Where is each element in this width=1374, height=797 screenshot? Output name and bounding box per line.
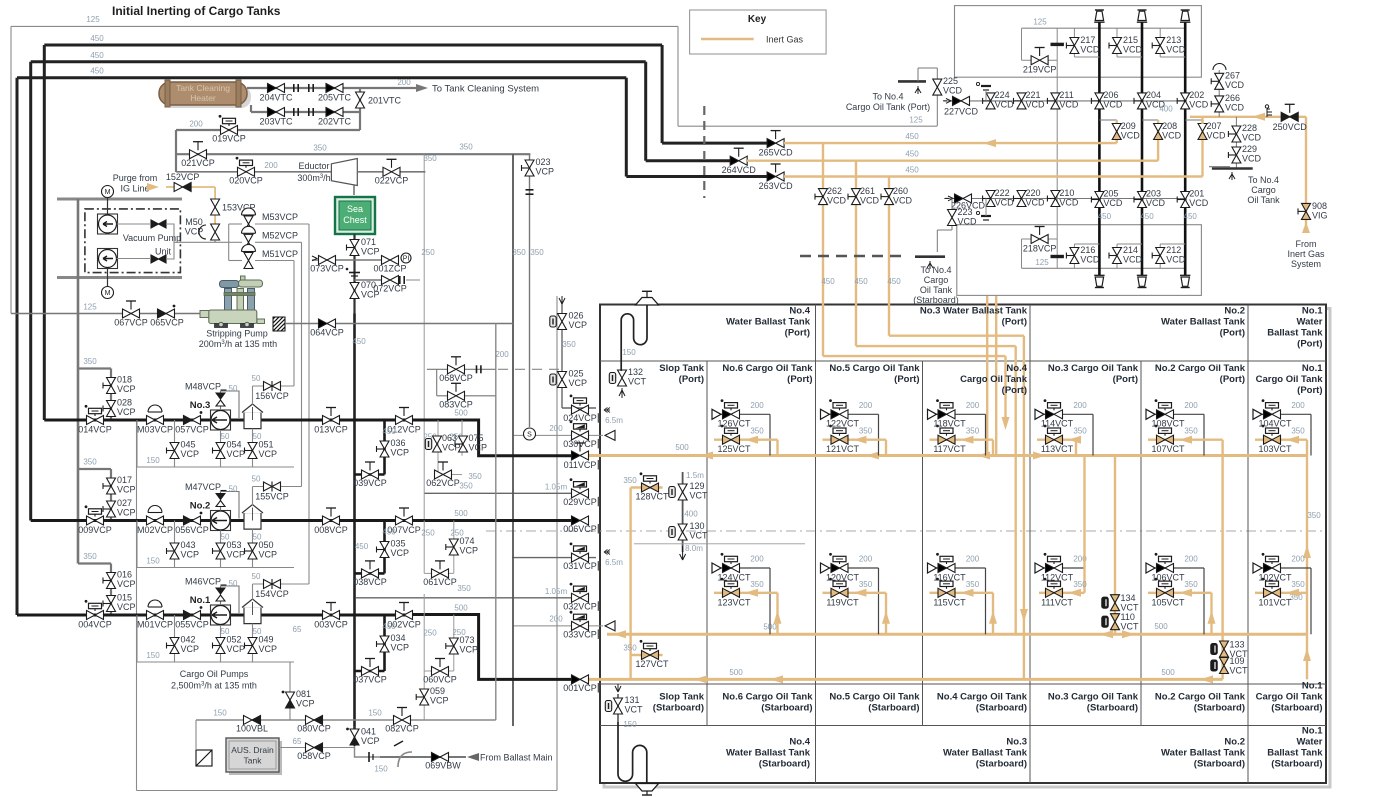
svg-text:To No.4: To No.4	[872, 92, 903, 102]
valve 203VTC	[268, 108, 277, 117]
svg-text:VCP: VCP	[185, 227, 204, 237]
svg-text:Purge from: Purge from	[113, 173, 158, 183]
svg-text:350: 350	[1073, 580, 1087, 589]
svg-text:264VCD: 264VCD	[722, 165, 757, 175]
vacuum pump 2	[98, 249, 118, 269]
svg-text:200: 200	[1291, 401, 1305, 410]
valve 014VCP	[87, 416, 96, 425]
valve 260VCD	[881, 196, 889, 198]
svg-text:(Starboard): (Starboard)	[1271, 703, 1322, 714]
valve 216VCD	[1066, 255, 1074, 257]
svg-text:350: 350	[1307, 511, 1321, 520]
svg-text:021VCP: 021VCP	[181, 158, 215, 168]
svg-text:016: 016	[117, 570, 132, 580]
svg-text:6.5m: 6.5m	[605, 558, 623, 567]
svg-text:M03VCP: M03VCP	[137, 424, 173, 434]
pipe 450 trunk B left drop	[29, 62, 32, 521]
svg-text:VCT: VCT	[1121, 622, 1140, 632]
svg-text:207: 207	[1207, 121, 1222, 131]
svg-text:VCP: VCP	[361, 736, 380, 746]
pipe stripping discharge	[285, 323, 513, 325]
arrow port header flow left 3	[977, 452, 990, 460]
valve 226VCD	[955, 194, 964, 203]
svg-text:350: 350	[750, 427, 764, 436]
node suction inlet triangle 120VCT	[821, 563, 830, 573]
svg-text:VCD: VCD	[1080, 45, 1100, 55]
svg-text:VCD: VCD	[860, 196, 880, 206]
svg-text:125VCT: 125VCT	[717, 444, 751, 454]
pipe lower stbd inert gas line 500 (tan)	[583, 678, 1223, 681]
valve 209VCD	[1112, 124, 1121, 132]
svg-text:M53VCP: M53VCP	[262, 212, 298, 222]
svg-text:VCD: VCD	[1166, 45, 1186, 55]
svg-text:450: 450	[355, 542, 369, 551]
svg-text:VCD: VCD	[1026, 100, 1046, 110]
valve 107VCT	[1157, 435, 1166, 444]
svg-text:214: 214	[1123, 245, 1138, 255]
pipe tan drop 261VCD	[855, 161, 857, 256]
svg-text:VCP: VCP	[117, 485, 136, 495]
pump No.2	[211, 511, 231, 531]
svg-text:Oil Tank: Oil Tank	[920, 285, 953, 295]
svg-text:No.4: No.4	[789, 306, 810, 317]
bulkhead dashed line	[703, 106, 705, 198]
label No.2 Water Ballast Tank (Port)	[1161, 306, 1246, 339]
wire bridge top 215VCD	[1116, 28, 1118, 38]
valve 016VCP	[103, 580, 111, 582]
bar vacuum bottom	[57, 276, 182, 279]
valve 036VCP	[377, 448, 385, 450]
valve 155VCP	[264, 482, 273, 491]
svg-text:213: 213	[1166, 35, 1181, 45]
wire 106VCT drop	[1203, 568, 1205, 634]
pipe 450 trunk B top	[31, 60, 646, 63]
node suction inlet triangle 124VCT	[712, 563, 721, 573]
svg-text:023: 023	[536, 157, 551, 167]
pipe 125 thin loop top	[11, 25, 678, 27]
node suction inlet triangle 112VCT	[1035, 563, 1044, 573]
svg-text:VCD: VCD	[1123, 255, 1143, 265]
svg-text:VCP: VCP	[117, 579, 136, 589]
svg-text:No.5 Cargo Oil Tank: No.5 Cargo Oil Tank	[829, 692, 920, 703]
svg-text:450: 450	[382, 427, 396, 436]
valve 111VCT	[1046, 588, 1055, 597]
svg-text:No.1: No.1	[1302, 306, 1323, 317]
svg-text:060VCP: 060VCP	[423, 675, 457, 685]
valve 100VBL	[244, 716, 253, 725]
svg-text:(Port): (Port)	[1220, 328, 1245, 339]
svg-text:No.1: No.1	[1302, 726, 1323, 737]
valve 061VCP	[432, 569, 441, 578]
svg-text:Cargo Oil Tank: Cargo Oil Tank	[1256, 692, 1324, 703]
svg-text:200: 200	[549, 424, 563, 433]
wire 116VCT drop	[985, 568, 987, 634]
wire 029VCP line	[424, 492, 571, 494]
pipe 450 trunk A drop right	[661, 45, 664, 143]
svg-text:120VCT: 120VCT	[826, 572, 860, 582]
arrow flow 113VCT	[1068, 436, 1081, 444]
pipe machinery boundary bottom	[137, 790, 558, 792]
svg-text:261: 261	[860, 186, 875, 196]
svg-text:027: 027	[117, 498, 132, 508]
label No.2 Water Ballast Tank (Starboard)	[1161, 737, 1246, 770]
valve 118VCT	[938, 410, 947, 419]
svg-text:500: 500	[454, 409, 468, 418]
pipe cargo riser 1 (thick)	[1098, 23, 1101, 276]
valve 028VCP	[103, 408, 111, 410]
pipe 125 stripping line	[11, 313, 204, 315]
svg-text:082VCP: 082VCP	[385, 724, 419, 734]
valve M46VCP relief	[220, 586, 222, 605]
valve 082VCP	[394, 716, 403, 725]
valve 072VCP	[382, 276, 391, 285]
pipe 020VCP line	[176, 171, 331, 173]
valve 004VCP	[87, 611, 96, 620]
svg-text:VCP: VCP	[227, 644, 246, 654]
svg-text:500: 500	[454, 509, 468, 518]
valve 027VCP	[103, 508, 111, 510]
svg-text:No.4: No.4	[789, 737, 810, 748]
wire 105VCT branch stbd (inert gas)	[1148, 592, 1212, 594]
wire 033VCP stub	[513, 625, 603, 627]
wire 102VCT suction line stbd	[1260, 567, 1311, 569]
valve 073VCP	[319, 256, 328, 265]
valve 103VCT	[1264, 435, 1273, 444]
pipe recirculation loop train 1	[137, 661, 294, 663]
valve 043 drop	[174, 521, 176, 568]
valve 205VTC	[326, 84, 335, 93]
node vent chevron 026	[559, 296, 565, 304]
svg-text:132: 132	[628, 367, 643, 377]
pipe tan crossover to x=1023.9	[889, 335, 1024, 337]
svg-text:150: 150	[368, 709, 382, 718]
svg-text:156VCP: 156VCP	[255, 391, 289, 401]
arrow flow 101VCT	[1286, 589, 1299, 597]
svg-text:075: 075	[469, 433, 484, 443]
valve 056VCP	[184, 516, 193, 525]
valve 201VCD	[1177, 199, 1185, 201]
svg-text:VCP: VCP	[117, 602, 136, 612]
svg-text:VCP: VCP	[117, 508, 136, 518]
pipe port inert gas header 500 (tan)	[583, 454, 1307, 457]
svg-text:VCP: VCP	[227, 550, 246, 560]
valve 129VCT	[669, 487, 675, 498]
svg-text:(Starboard): (Starboard)	[1087, 703, 1138, 714]
wire slop mid line	[634, 543, 805, 545]
valve 054 drop	[220, 430, 222, 467]
label Slop Tank (Starboard)	[653, 692, 705, 714]
node suction inlet triangle 126VCT	[712, 409, 721, 419]
valve M01VCP	[147, 611, 156, 620]
svg-text:(Port): (Port)	[785, 328, 810, 339]
arrow purge tan	[147, 183, 159, 191]
svg-text:218VCP: 218VCP	[1023, 244, 1057, 254]
svg-text:065VCP: 065VCP	[150, 318, 184, 328]
svg-text:(Port): (Port)	[1297, 385, 1322, 396]
svg-text:VCP: VCP	[259, 550, 278, 560]
svg-text:106VCT: 106VCT	[1151, 572, 1185, 582]
valve 057VCP	[184, 416, 193, 425]
wire 207VCD bypass	[1185, 119, 1202, 121]
wire 024VCP jog	[562, 407, 596, 409]
svg-text:073: 073	[460, 635, 475, 645]
svg-text:064VCP: 064VCP	[310, 328, 344, 338]
valve 152VCP	[174, 183, 183, 192]
svg-text:(Starboard): (Starboard)	[976, 703, 1027, 714]
pipe 450 trunk B to 264VCD	[646, 159, 730, 162]
valve 105VCT	[1157, 588, 1166, 597]
svg-text:042: 042	[181, 635, 196, 645]
svg-text:127VCT: 127VCT	[635, 659, 669, 669]
svg-text:350: 350	[1184, 580, 1198, 589]
pipe machinery boundary left	[136, 420, 138, 791]
svg-text:VCD: VCD	[827, 196, 847, 206]
pipe purge tan drop	[214, 187, 216, 226]
svg-text:350: 350	[468, 472, 482, 481]
svg-text:200: 200	[495, 350, 509, 359]
svg-text:Cargo: Cargo	[924, 275, 949, 285]
valve 052 drop	[220, 625, 222, 662]
node elbow curve	[398, 752, 412, 767]
arrow flow 115VCT	[961, 589, 974, 597]
valve 201VTC	[356, 92, 365, 100]
svg-text:M: M	[105, 290, 111, 297]
pipe 350 suction trunk	[77, 199, 80, 564]
valve 069VBW	[432, 753, 441, 762]
svg-text:50: 50	[253, 627, 262, 636]
valve 250VCD	[1281, 112, 1290, 121]
svg-text:VCD: VCD	[995, 198, 1015, 208]
svg-text:006VCP: 006VCP	[563, 524, 597, 534]
valve 104VCT	[1264, 410, 1273, 419]
wire 119VCT branch stbd (inert gas)	[823, 592, 887, 594]
valve 006VCP	[572, 516, 581, 525]
svg-text:VCD: VCD	[1225, 103, 1245, 113]
node vent arrow slop mid	[680, 546, 686, 560]
wire 122VCT suction line	[828, 413, 879, 415]
wire 117VCT branch (inert gas)	[930, 439, 994, 441]
svg-text:VCP: VCP	[296, 699, 315, 709]
svg-text:200: 200	[859, 401, 873, 410]
pipe tan drop x=1222 No.2 branch to lower stbd	[1221, 440, 1223, 680]
wire 114VCT suction line	[1042, 413, 1093, 415]
arrow flow 125VCT	[745, 436, 758, 444]
svg-text:013VCP: 013VCP	[314, 424, 348, 434]
svg-text:107VCT: 107VCT	[1151, 444, 1185, 454]
svg-text:119VCT: 119VCT	[826, 597, 859, 607]
svg-text:217: 217	[1080, 35, 1095, 45]
svg-text:350: 350	[1184, 427, 1198, 436]
svg-text:266: 266	[1225, 93, 1240, 103]
svg-text:034: 034	[391, 633, 406, 643]
wire 108VCT suction line	[1153, 413, 1204, 415]
node vacuum arc 267	[1213, 64, 1226, 71]
svg-text:083VCP: 083VCP	[439, 399, 473, 409]
valve 053 drop	[220, 531, 222, 568]
pipe 038VCP jog (thick)	[355, 572, 385, 575]
svg-text:150: 150	[146, 557, 160, 566]
arrow stbd header flow right	[1122, 630, 1135, 638]
wire 113VCT branch (inert gas)	[1037, 439, 1076, 441]
arrow stbd header flow left	[613, 630, 626, 638]
svg-text:108VCT: 108VCT	[1151, 419, 1185, 429]
wire bridge bottom 212VCD	[1159, 263, 1161, 268]
svg-text:125: 125	[1035, 258, 1049, 267]
node diagonal box	[196, 750, 212, 766]
svg-text:450: 450	[90, 34, 104, 43]
label No.1 Cargo Oil Tank (Starboard)	[1256, 681, 1324, 714]
hatch box	[273, 317, 285, 331]
key sample inert gas line	[701, 38, 754, 41]
svg-text:VCD: VCD	[1166, 255, 1186, 265]
svg-text:VCD: VCD	[995, 100, 1015, 110]
svg-text:029VCP: 029VCP	[563, 497, 597, 507]
wire 124VCT drop	[769, 568, 771, 634]
svg-text:VCD: VCD	[943, 86, 963, 96]
node suction inlet triangle 106VCT	[1146, 563, 1155, 573]
valve 127VCT	[642, 651, 651, 660]
wire 106VCT suction line stbd	[1153, 567, 1204, 569]
cone 030VCP	[605, 430, 615, 440]
valve 228VCD	[1228, 133, 1236, 135]
svg-text:001ZCP: 001ZCP	[373, 264, 406, 274]
svg-text:No.2: No.2	[1224, 737, 1245, 748]
valve 064VCP	[319, 319, 328, 328]
valve 063VCP	[425, 439, 431, 450]
svg-text:201: 201	[1189, 189, 1204, 199]
svg-text:M50: M50	[185, 217, 203, 227]
svg-text:150: 150	[622, 348, 636, 357]
valve 024VCP	[572, 405, 581, 414]
valve 050 drop	[252, 529, 254, 567]
wire 107VCT branch (inert gas)	[1148, 439, 1223, 441]
svg-text:No.6 Cargo Oil Tank: No.6 Cargo Oil Tank	[722, 692, 813, 703]
wire 116VCT suction line stbd	[935, 567, 986, 569]
svg-text:122VCT: 122VCT	[826, 419, 860, 429]
pipe 021VCP 350 line	[176, 153, 530, 155]
wire riser M52 to 155VCP	[301, 242, 303, 486]
wire 103VCT branch (inert gas)	[1255, 439, 1307, 441]
wire 041 to ballast line	[355, 746, 381, 757]
tank grid shadow	[604, 309, 1330, 788]
svg-text:150: 150	[374, 765, 388, 774]
svg-text:No.1: No.1	[1302, 363, 1323, 374]
svg-text:VCP: VCP	[181, 449, 200, 459]
svg-text:350: 350	[966, 427, 980, 436]
svg-text:VCD: VCD	[1059, 100, 1079, 110]
wire 125VCT branch (inert gas)	[714, 439, 778, 441]
svg-text:200: 200	[549, 615, 563, 624]
wire mid riser x=1057	[1056, 28, 1058, 268]
valve 134VCT	[1102, 597, 1108, 608]
wire strainer to 154VCP	[252, 584, 254, 600]
pipe 450 trunk C to 263VCD	[626, 175, 767, 178]
svg-text:202VTC: 202VTC	[318, 117, 352, 127]
pipe main suction train 1 (thick)	[17, 614, 412, 617]
grid column divider x=815.5	[815, 305, 817, 784]
wire 061 jog	[424, 572, 454, 574]
svg-text:123VCT: 123VCT	[717, 597, 751, 607]
svg-text:057VCP: 057VCP	[175, 424, 209, 434]
valve 207VCD	[1198, 124, 1207, 132]
svg-text:VCT: VCT	[628, 377, 647, 387]
svg-text:061VCP: 061VCP	[423, 577, 457, 587]
valve 031VCP	[572, 553, 581, 562]
svg-text:125: 125	[86, 15, 100, 24]
svg-text:VCD: VCD	[1162, 131, 1182, 141]
svg-text:025: 025	[569, 369, 584, 379]
valve 211VCD	[1047, 100, 1055, 102]
pipe 350 branch train 2	[78, 468, 111, 470]
wire gray to No4 right	[1209, 166, 1230, 168]
svg-text:017: 017	[117, 475, 132, 485]
svg-text:211: 211	[1059, 90, 1073, 100]
svg-text:50: 50	[221, 627, 230, 636]
svg-text:From Ballast Main: From Ballast Main	[480, 753, 553, 763]
valve 112VCT	[1046, 564, 1055, 573]
pipe 125 line to manifold	[678, 125, 937, 127]
node arrow mark 031	[604, 550, 610, 555]
svg-text:350: 350	[1291, 427, 1305, 436]
svg-text:080VCP: 080VCP	[297, 724, 331, 734]
svg-text:450: 450	[1098, 212, 1112, 221]
valve 062VCP	[435, 470, 444, 479]
wire 102VCT drop	[1310, 568, 1312, 634]
svg-text:M51VCP: M51VCP	[262, 249, 298, 259]
wire 111VCT branch stbd (inert gas)	[1039, 592, 1085, 594]
svg-text:Slop Tank: Slop Tank	[659, 363, 704, 374]
svg-text:50: 50	[229, 384, 238, 393]
svg-text:VCD: VCD	[1146, 198, 1166, 208]
svg-text:200: 200	[859, 555, 873, 564]
svg-text:50: 50	[221, 432, 230, 441]
valve 108VCT	[1157, 410, 1166, 419]
svg-text:041: 041	[361, 727, 376, 737]
machine stripping pump	[225, 289, 232, 311]
svg-text:203VTC: 203VTC	[259, 117, 293, 127]
svg-text:VCT: VCT	[690, 531, 709, 541]
valve 220VCD	[1014, 198, 1022, 200]
svg-text:500: 500	[1154, 622, 1168, 631]
node vent arrow 131VCT	[615, 684, 621, 692]
valve 204VTC	[268, 84, 277, 93]
svg-text:VCD: VCD	[1103, 198, 1123, 208]
valve 065VCP	[158, 309, 167, 318]
svg-text:209: 209	[1121, 121, 1136, 131]
svg-text:001VCP: 001VCP	[563, 683, 597, 693]
svg-text:227VCD: 227VCD	[944, 107, 979, 117]
valve 037VCP	[362, 667, 371, 676]
label No.3 Cargo Oil Tank (Starboard)	[1048, 692, 1139, 714]
wire 228/229 column	[1235, 117, 1237, 169]
svg-text:VCP: VCP	[361, 290, 380, 300]
wire 108VCT drop	[1203, 414, 1205, 455]
svg-text:M: M	[105, 189, 111, 196]
wire 101VCT branch stbd (inert gas)	[1255, 592, 1307, 594]
svg-text:028: 028	[117, 398, 132, 408]
valve M02VCP	[147, 516, 156, 525]
svg-text:No.1: No.1	[1302, 681, 1323, 692]
valve 120VCT	[831, 564, 840, 573]
pipe 012VCP discharge jog (thick)	[412, 420, 572, 456]
svg-text:PI: PI	[403, 256, 410, 263]
svg-text:Water Ballast Tank: Water Ballast Tank	[1161, 317, 1246, 328]
arrow flow 103VCT	[1286, 436, 1299, 444]
svg-text:500: 500	[729, 668, 743, 677]
vessel Tank Cleaning Heater	[159, 82, 247, 105]
valve 119VCT	[831, 588, 840, 597]
svg-text:134: 134	[1121, 593, 1136, 603]
